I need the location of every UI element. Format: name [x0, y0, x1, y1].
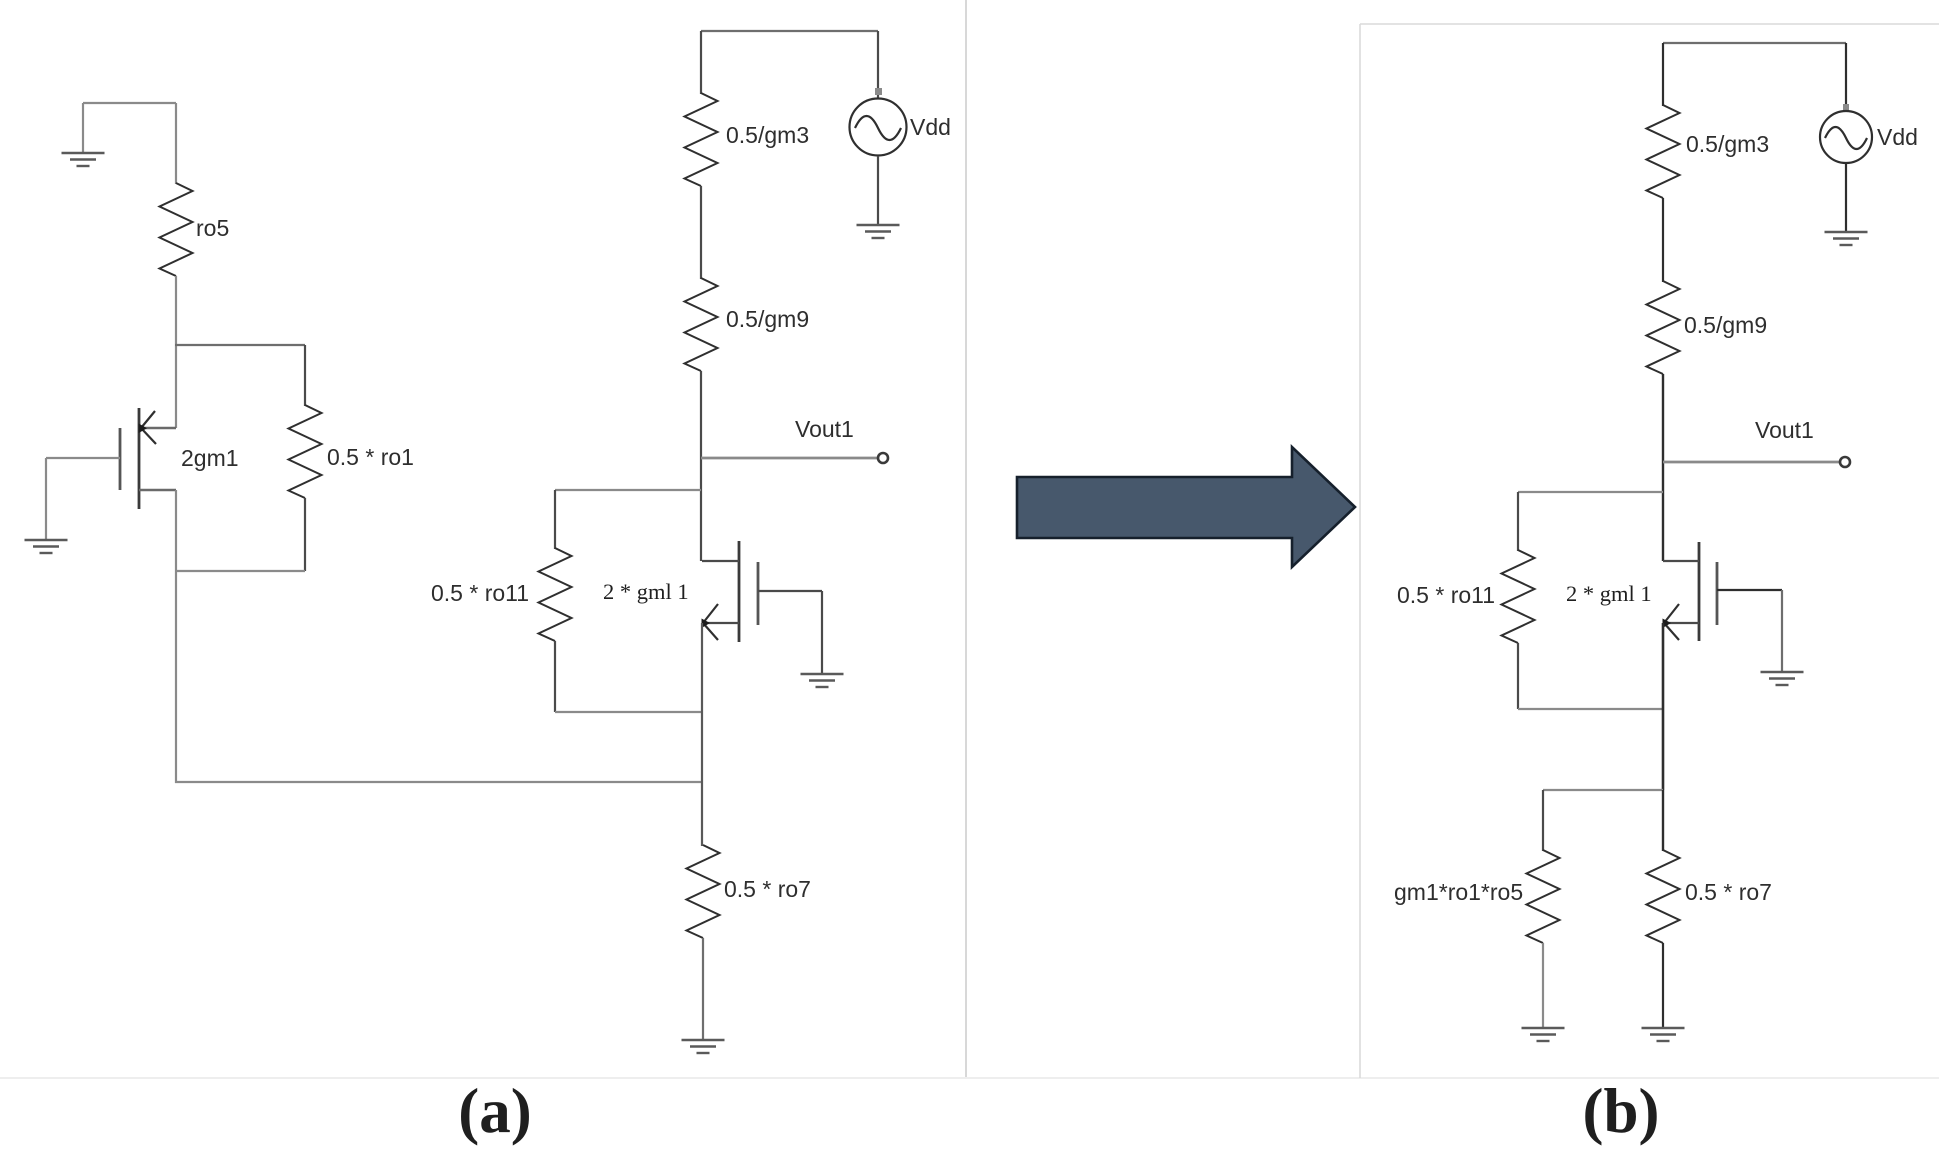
M1 drain contact: [139, 427, 176, 429]
resistor 0.5*ro7 b: [1647, 850, 1680, 943]
svg-text:Vdd: Vdd: [910, 114, 951, 140]
wire Vdd to ground: [877, 156, 879, 224]
transistor M3 channel bar: [1698, 542, 1701, 641]
Vout1 wire: [701, 457, 878, 460]
resistor ro5: [160, 183, 193, 276]
svg-text:0.5 * ro11: 0.5 * ro11: [431, 580, 529, 606]
M3 gate wire: [1717, 589, 1782, 591]
top rail b: [1663, 42, 1846, 44]
Vout1 terminal: [878, 453, 888, 463]
wire down to ground G1: [82, 103, 84, 152]
wire ro5 to drain node: [175, 276, 177, 428]
svg-text:Vout1: Vout1: [1755, 417, 1814, 443]
ground G9: [1825, 232, 1868, 245]
transistor M1 channel bar: [138, 408, 141, 509]
M2 source wire down: [701, 623, 703, 846]
transistor M3 gate bar: [1716, 562, 1719, 625]
svg-text:ro5: ro5: [196, 215, 229, 241]
Vdd b junction dot: [1843, 104, 1849, 110]
svg-text:2 * gml 1: 2 * gml 1: [1566, 581, 1652, 606]
svg-text:Vdd: Vdd: [1877, 124, 1918, 150]
ground G4: [682, 1040, 725, 1053]
Vdd sine b: [1825, 127, 1867, 149]
resistor 0.5/gm9 b: [1647, 281, 1680, 374]
svg-text:2gm1: 2gm1: [181, 445, 239, 471]
wire gm9 to drain b: [1662, 374, 1664, 561]
wire gm1*ro1*ro5 to ground: [1542, 943, 1544, 1027]
wire gm9 to drain: [700, 371, 702, 561]
M2 gate wire down: [821, 591, 823, 673]
Vout1 terminal b: [1840, 457, 1850, 467]
wire ro11 bottom b: [1517, 643, 1519, 709]
resistor 0.5/gm9: [685, 278, 718, 371]
node wire to left resistor b: [1543, 789, 1663, 791]
panel (b) frame top edge: [1360, 23, 1939, 25]
gate node wire b: [1518, 491, 1663, 493]
svg-text:0.5/gm3: 0.5/gm3: [726, 122, 809, 148]
source Vdd circle b: [1820, 111, 1872, 163]
wire into 0.5*ro1: [304, 345, 306, 406]
svg-text:(a): (a): [458, 1076, 531, 1146]
wire into 0.5*ro11: [554, 490, 556, 549]
svg-text:(b): (b): [1583, 1076, 1660, 1146]
bottom hairline: [0, 1077, 1939, 1079]
wire into gm1*ro1*ro5: [1542, 790, 1544, 851]
M1 source contact: [139, 489, 176, 491]
big transform arrow: [1017, 447, 1355, 567]
resistor 0.5*ro1: [289, 405, 322, 498]
M1 source wire down: [175, 490, 177, 783]
M1 arrow: [141, 411, 156, 444]
resistor 0.5/gm3: [685, 93, 718, 186]
svg-text:gm1*ro1*ro5: gm1*ro1*ro5: [1394, 879, 1523, 905]
resistor 0.5*ro7: [687, 845, 720, 938]
svg-text:0.5/gm3: 0.5/gm3: [1686, 131, 1769, 157]
M1 gate wire: [46, 457, 120, 459]
M3 gate wire down: [1781, 590, 1783, 671]
wire top-left horizontal: [83, 102, 176, 104]
node wire to 0.5*ro1: [175, 344, 305, 346]
resistor 0.5*ro11 b: [1502, 550, 1535, 643]
ground G6: [1761, 672, 1804, 685]
svg-text:0.5 * ro11: 0.5 * ro11: [1397, 582, 1495, 608]
wire between gm3 and gm9: [700, 186, 702, 279]
M3 drain contact: [1663, 560, 1699, 562]
resistor gm1*ro1*ro5: [1527, 850, 1560, 943]
wire 0.5*ro1 bottom: [304, 498, 306, 571]
Vout1 wire b: [1663, 461, 1840, 464]
transistor M2 channel bar: [738, 541, 741, 642]
top rail: [701, 30, 878, 32]
bottom of ro11 loop b: [1518, 708, 1663, 710]
gate node wire: [555, 489, 701, 491]
Vdd sine: [855, 116, 901, 140]
transistor M1 gate bar: [119, 428, 122, 490]
wire top rail to Vdd b: [1845, 43, 1847, 112]
M3 source contact: [1663, 622, 1699, 624]
wire bottom of ro1 loop: [175, 570, 305, 572]
resistor 0.5/gm3 b: [1647, 105, 1680, 198]
M3 arrow: [1664, 604, 1679, 640]
wire gm3-gm9 b: [1662, 198, 1664, 282]
ground G7: [1522, 1028, 1565, 1041]
wire top rail to Vdd: [877, 31, 879, 99]
M2 source contact: [702, 622, 739, 624]
panel (b) frame left edge: [1359, 24, 1361, 1078]
M1 gate wire down: [45, 458, 47, 539]
source Vdd circle: [850, 99, 907, 156]
wire into 0.5/gm3: [700, 31, 702, 94]
long bottom wire to right circuit: [175, 781, 703, 783]
M2 drain contact: [702, 560, 739, 562]
wire into 0.5*ro7 b: [1662, 790, 1664, 851]
wire ro11 bottom: [554, 641, 556, 712]
ground G2: [25, 540, 68, 553]
M2 arrow: [703, 604, 718, 640]
wire ro7 to ground b: [1662, 943, 1664, 1027]
svg-text:0.5/gm9: 0.5/gm9: [726, 306, 809, 332]
panel separator line: [965, 0, 967, 1078]
svg-text:0.5 * ro1: 0.5 * ro1: [327, 444, 414, 470]
M2 gate wire: [758, 590, 822, 592]
ground G8: [1642, 1028, 1685, 1041]
ground G5: [857, 225, 900, 238]
wire into 0.5/gm3 b: [1662, 43, 1664, 106]
bottom of ro11 loop: [555, 711, 702, 713]
ground G1: [62, 153, 105, 166]
svg-text:0.5/gm9: 0.5/gm9: [1684, 312, 1767, 338]
M3 source wire down: [1662, 623, 1665, 790]
resistor 0.5*ro11: [539, 548, 572, 641]
wire into ro11 b: [1517, 492, 1519, 551]
svg-text:Vout1: Vout1: [795, 416, 854, 442]
svg-text:0.5 * ro7: 0.5 * ro7: [724, 876, 811, 902]
transistor M2 gate bar: [757, 562, 760, 625]
wire ro7 to ground: [702, 938, 704, 1039]
svg-text:2 * gml 1: 2 * gml 1: [603, 579, 689, 604]
wire Vdd to ground b: [1845, 163, 1847, 231]
ground G3: [801, 674, 844, 687]
svg-text:0.5 * ro7: 0.5 * ro7: [1685, 879, 1772, 905]
Vdd junction dot: [875, 88, 882, 95]
wire into ro5: [175, 103, 177, 184]
